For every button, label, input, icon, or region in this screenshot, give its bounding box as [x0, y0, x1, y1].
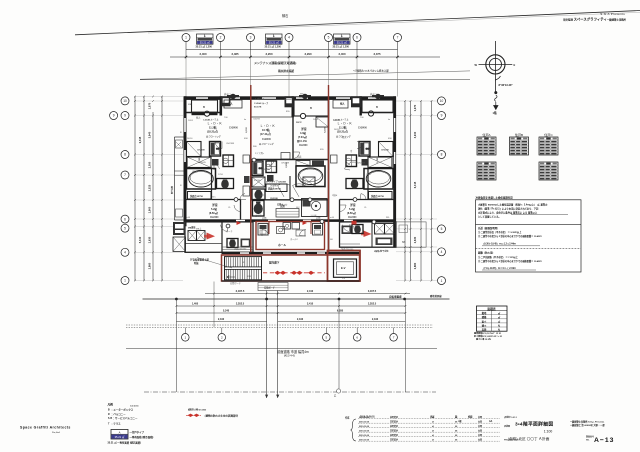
- unit number mini-table: [266, 34, 283, 45]
- svg-text:5: 5: [441, 227, 443, 231]
- stair treads: [225, 257, 227, 279]
- unit C lower dark cabinet: [376, 238, 393, 246]
- svg-text:設計監理 スペースグラフィティ一級建築士事務所: 設計監理 スペースグラフィティ一級建築士事務所: [563, 17, 626, 22]
- svg-text:lw: lw: [244, 119, 246, 121]
- svg-text:洗面: 洗面: [297, 155, 302, 159]
- unit A hall wall: [211, 168, 213, 200]
- svg-text:2,860: 2,860: [148, 262, 152, 269]
- unit A washer unit: [223, 155, 234, 167]
- svg-text:乙: 乙: [334, 394, 337, 398]
- unit A wing step lines: [222, 246, 253, 248]
- unit B hall walls: [251, 199, 329, 201]
- svg-text:CH2400: CH2400: [348, 216, 357, 219]
- unit B mid wall: [251, 159, 329, 161]
- svg-text:2,400: 2,400: [339, 52, 346, 56]
- svg-text:避難（防火用）: 避難（防火用）: [478, 250, 495, 254]
- boundary circle marker: [337, 389, 341, 393]
- grid bubble Y1 right: [438, 277, 446, 285]
- unit A wing basin: [241, 239, 251, 248]
- stair arrow: [227, 276, 235, 279]
- EV cab: [334, 259, 357, 277]
- svg-text:先道（経路証明用）: 先道（経路証明用）: [478, 226, 500, 230]
- chain tick: [328, 50, 330, 58]
- svg-text:3,187.5: 3,187.5: [368, 290, 377, 293]
- left dim line 2: [143, 96, 145, 281]
- unit B bedroom door arc: [294, 152, 299, 158]
- svg-text:6,150: 6,150: [246, 126, 248, 132]
- left dim tick row: [134, 218, 136, 220]
- svg-text:(8.59㎡): (8.59㎡): [347, 211, 356, 215]
- svg-text:排水口: 排水口: [224, 92, 231, 96]
- svg-text:855: 855: [286, 111, 290, 113]
- svg-text:3,350: 3,350: [325, 181, 327, 187]
- grid bubble X6 top: [353, 34, 361, 42]
- unit B bedroom wall: [292, 117, 294, 160]
- left dim line 1: [134, 96, 136, 281]
- chain tick: [185, 50, 187, 58]
- approach path rails: [266, 291, 268, 399]
- svg-text:R: R: [180, 185, 182, 187]
- unit A wing MB boxes: [188, 231, 197, 241]
- fire compartment red line A/B: [250, 85, 252, 252]
- svg-text:意匠変更: 意匠変更: [390, 429, 398, 433]
- unit B bath: [296, 166, 325, 187]
- grid line upper extension: [185, 57, 187, 97]
- svg-text:3: 3: [250, 36, 252, 40]
- road edge dotted upper: [126, 324, 433, 326]
- svg-text:建築面積1F1,21.75㎡・1F 21: 建築面積1F1,21.75㎡・1F 21: [473, 331, 502, 335]
- unit C top room knob: [368, 111, 373, 116]
- svg-text:上り框: 上り框: [310, 214, 317, 218]
- grid line upper extension: [288, 57, 290, 97]
- grid bubble X1 top: [182, 34, 190, 42]
- svg-text:2,190: 2,190: [372, 318, 379, 321]
- hall centre fixtures: [277, 227, 285, 234]
- grid bubble Y10 left: [121, 97, 129, 105]
- grid bubble X5 top: [325, 34, 333, 42]
- svg-text:(承認印 0.01.2: (承認印 0.01.2: [504, 415, 518, 419]
- svg-text:1: 1: [185, 36, 187, 40]
- svg-text:lw: lw: [388, 119, 390, 121]
- left dim tick row: [134, 280, 136, 282]
- svg-text:SB: SB: [402, 241, 406, 244]
- road grid bubbles: [184, 328, 186, 334]
- grid bubble X7 top: [394, 34, 402, 42]
- unit B basin cabinet: [266, 184, 287, 192]
- svg-text:Ｌ・Ｄ・Ｋ: Ｌ・Ｄ・Ｋ: [207, 122, 222, 126]
- svg-text:2,282.5: 2,282.5: [236, 303, 245, 306]
- svg-text:2,050: 2,050: [148, 161, 152, 168]
- svg-text:df: df: [432, 417, 434, 419]
- dim tick: [185, 56, 187, 58]
- svg-text:冷: 冷: [350, 149, 353, 153]
- right dim ticks: [404, 218, 406, 220]
- svg-text:限K1.25H: 限K1.25H: [297, 139, 307, 143]
- dim tick: [396, 56, 398, 58]
- right dim line: [431, 101, 433, 281]
- svg-text:SK7: SK7: [260, 195, 265, 197]
- right dim ticks: [404, 115, 406, 117]
- unit B lower cell: [303, 177, 315, 187]
- site boundary line with dots: [143, 298, 450, 300]
- unit C core cell mid: [368, 157, 392, 168]
- svg-text:承認図: 承認図: [503, 424, 510, 428]
- north angle tick: [495, 76, 500, 80]
- svg-text:1: 1: [441, 279, 443, 283]
- svg-text:2,282.5: 2,282.5: [368, 303, 377, 306]
- top chain line: [186, 49, 398, 51]
- unit A bedroom door arc: [234, 205, 241, 212]
- svg-text:Ｒ ：バルコニー: Ｒ ：バルコニー: [108, 412, 127, 416]
- grid X7 stem: [397, 42, 399, 50]
- svg-text:1,970: 1,970: [148, 102, 152, 109]
- left balcony marks: [176, 140, 183, 148]
- unit C bedroom left wall: [339, 200, 341, 220]
- svg-text:太田: 太田: [477, 433, 482, 437]
- north arrowhead: [494, 102, 498, 110]
- svg-text:(18.21㎡): (18.21㎡): [207, 130, 218, 134]
- svg-text:1棟: 1棟: [458, 419, 462, 423]
- building bottom wall: [222, 280, 360, 282]
- svg-text:ポーチ: ポーチ: [226, 229, 233, 233]
- right dim ticks: [404, 228, 406, 230]
- balcony hatch marks left: [176, 142, 181, 147]
- svg-text:C-45d8 ルーフ: C-45d8 ルーフ: [254, 101, 268, 105]
- svg-text:4: 4: [288, 36, 290, 40]
- grid bubble X3 top: [247, 34, 255, 42]
- roof drain blob unit B: [299, 94, 311, 100]
- site boundary curb line (diagonal): [75, 11, 640, 35]
- svg-text:2019.10.09: 2019.10.09: [359, 417, 370, 419]
- svg-text:2,485: 2,485: [232, 52, 239, 56]
- extra small fixtures: [243, 155, 250, 163]
- chain tick: [220, 50, 222, 58]
- svg-text:作成: 作成: [345, 415, 350, 419]
- svg-text:8: 8: [124, 153, 126, 157]
- grid bubble Y4 left: [121, 248, 129, 256]
- legend unit type box: [111, 430, 128, 440]
- title block revision rows: [358, 418, 500, 420]
- left dim tick row: [134, 226, 136, 228]
- roof drain blob unit A: [227, 94, 239, 100]
- unit A WC: [217, 179, 234, 189]
- svg-text:df: df: [432, 426, 434, 428]
- svg-text:WIC: WIC: [300, 94, 305, 96]
- right dim ticks: [404, 280, 406, 282]
- grid X5 stem: [328, 42, 330, 50]
- svg-text:10: 10: [123, 99, 127, 103]
- svg-text:w16: w16: [186, 217, 191, 219]
- svg-text:5.2帖: 5.2帖: [211, 207, 217, 211]
- left exterior wall band: [184, 96, 187, 226]
- svg-text:9,315: 9,315: [138, 136, 142, 143]
- svg-text:980: 980: [253, 146, 257, 148]
- svg-text:洗面台 W750: 洗面台 W750: [371, 194, 385, 198]
- unit A MB/LDK divider wall: [220, 96, 223, 115]
- unit number mini-table: [197, 34, 214, 45]
- svg-text:床:フローリング: 床:フローリング: [258, 142, 274, 146]
- svg-text:5: 5: [328, 36, 330, 40]
- svg-text:658: 658: [388, 138, 392, 140]
- EV red box: [328, 251, 361, 282]
- svg-text:2019.10.09: 2019.10.09: [359, 431, 370, 433]
- unit A basin cabinet: [188, 192, 212, 200]
- svg-text:9FL: 9FL: [386, 217, 391, 219]
- svg-text:縁石: 縁石: [282, 13, 288, 18]
- grid bubble Y1 left: [121, 277, 129, 285]
- svg-text:前面道路 市道 幅員4m: 前面道路 市道 幅員4m: [277, 349, 309, 354]
- unit B top room knob: [300, 113, 305, 118]
- svg-text:物入: 物入: [196, 116, 201, 120]
- svg-text:1216: 1216: [218, 174, 224, 176]
- roof drain blob unit C: [372, 94, 384, 100]
- unit C bath: [364, 169, 393, 190]
- dim tick: [219, 56, 221, 58]
- svg-text:35.21 ㎡ 1,200: 35.21 ㎡ 1,200: [265, 44, 282, 48]
- curb line parallel thin: [148, 12, 640, 33]
- svg-text:3,940: 3,940: [413, 131, 417, 138]
- left dim tick row: [134, 115, 136, 117]
- svg-text:9: 9: [441, 114, 443, 118]
- grid bubble Y9 left: [110, 112, 118, 120]
- svg-text:1:100: 1:100: [544, 430, 553, 434]
- svg-text:(42.2-4-4): (42.2-4-4): [284, 355, 295, 358]
- unit C core kitchen: [359, 142, 370, 157]
- svg-text:1,400: 1,400: [192, 303, 199, 306]
- left dim line 4: [161, 96, 163, 281]
- full-width hall top wall: [184, 219, 397, 222]
- stair mid rail: [225, 267, 262, 270]
- svg-text:2段積・物干金物: 2段積・物干金物: [374, 249, 389, 253]
- left balcony rail: [173, 137, 175, 220]
- svg-text:UB: UB: [192, 171, 196, 173]
- upper sloped drain line: [140, 71, 470, 79]
- unit number mini-table: [334, 34, 351, 45]
- svg-text:1帖M: 1帖M: [332, 193, 337, 197]
- svg-text:洋室: 洋室: [350, 203, 356, 207]
- svg-text:意匠変更: 意匠変更: [390, 415, 398, 419]
- left lower MB boxes: [173, 222, 186, 235]
- verticals to road: [175, 299, 177, 392]
- unit B LDK double door arcs: [278, 184, 291, 186]
- svg-text:1216: 1216: [298, 179, 304, 181]
- svg-text:A−13: A−13: [594, 437, 614, 444]
- unit A entrance red arrow: [207, 233, 216, 240]
- unit C hall wall: [367, 168, 369, 200]
- grid bubble Y10 right: [438, 97, 446, 105]
- unit B closet: [316, 117, 329, 127]
- hall red marks: [237, 221, 242, 225]
- right dim ticks: [404, 246, 406, 248]
- right dim line: [410, 101, 412, 281]
- lower dim line 1: [205, 293, 410, 295]
- svg-text:W645: W645: [264, 169, 270, 171]
- red compartment legend: [186, 414, 201, 417]
- unit C lower partition: [371, 222, 373, 247]
- svg-text:3,290: 3,290: [305, 52, 312, 56]
- hall/corridor wall: [222, 252, 360, 254]
- svg-text:6: 6: [124, 217, 126, 221]
- unit A bath: [187, 169, 216, 190]
- hall fixtures left: [258, 224, 268, 236]
- svg-text:2019.10.09: 2019.10.09: [359, 440, 370, 442]
- unit B WC lower: [253, 201, 265, 217]
- svg-text:検図: 検図: [468, 415, 473, 419]
- road centre line: [126, 347, 437, 349]
- left dim tick row: [134, 251, 136, 253]
- svg-text:A: A: [119, 430, 121, 434]
- svg-text:1: 1: [124, 279, 126, 283]
- lower dim line 3: [176, 312, 405, 314]
- corridor red diamonds: [274, 271, 280, 275]
- svg-text:6: 6: [356, 36, 358, 40]
- unit C lower X boxes: [375, 224, 385, 235]
- svg-text:35.21 ㎡: 35.21 ㎡: [337, 40, 347, 44]
- explanation box divider solid: [476, 223, 582, 225]
- grid bubble Y4 right: [438, 248, 446, 256]
- svg-text:排水口: 排水口: [370, 92, 377, 96]
- svg-text:SIC: SIC: [296, 207, 300, 209]
- left dim tick row: [134, 96, 136, 98]
- svg-text:df: df: [432, 435, 434, 437]
- opposite boundary dash-dot: [144, 391, 436, 393]
- svg-text:5.2帖: 5.2帖: [349, 207, 355, 211]
- svg-text:2: 2: [220, 36, 222, 40]
- unit B hall steps: [276, 209, 299, 218]
- svg-text:(8.59㎡): (8.59㎡): [209, 211, 218, 215]
- road upper dim segments: [176, 321, 266, 323]
- svg-text:1216: 1216: [366, 174, 372, 176]
- unit C core closet X: [379, 142, 394, 157]
- svg-text:1,760: 1,760: [377, 157, 379, 163]
- svg-text:床:フローリング: 床:フローリング: [205, 135, 221, 139]
- svg-text:35.21 ㎡ 1,200: 35.21 ㎡ 1,200: [333, 44, 350, 48]
- svg-text:R: R: [180, 132, 182, 134]
- svg-text:CL: CL: [364, 207, 368, 209]
- upper boundary line with dots: [140, 79, 470, 81]
- svg-text:冷房負荷を考慮した換気扇説明文: 冷房負荷を考慮した換気扇説明文: [476, 196, 514, 200]
- right dim line: [420, 101, 422, 281]
- svg-text:W645: W645: [352, 162, 358, 164]
- svg-text:(7.34㎡): (7.34㎡): [298, 135, 307, 139]
- svg-text:CH2400: CH2400: [229, 127, 238, 130]
- svg-text:意匠変更: 意匠変更: [390, 433, 398, 437]
- unit B balcony strip rails: [252, 99, 292, 101]
- svg-text:玄関ポーチ: 玄関ポーチ: [264, 286, 276, 290]
- svg-text:1624: 1624: [313, 119, 319, 121]
- dim tick: [288, 56, 290, 58]
- svg-text:35.21 ㎡: 35.21 ㎡: [269, 40, 279, 44]
- svg-text:太田: 太田: [477, 415, 482, 419]
- svg-text:横断防止柵 W=1800: 横断防止柵 W=1800: [188, 408, 207, 412]
- left dim tick row: [134, 100, 136, 102]
- svg-text:2,860: 2,860: [413, 262, 417, 269]
- svg-text:屋内廊下: 屋内廊下: [269, 261, 280, 265]
- unit B washer circle: [302, 199, 328, 217]
- svg-text:700: 700: [224, 117, 228, 119]
- svg-text:S.G.A Presents: S.G.A Presents: [600, 12, 625, 16]
- svg-text:4.3帖: 4.3帖: [300, 131, 306, 135]
- unit C lower step lines: [340, 243, 361, 245]
- unit C upper partition: [362, 112, 393, 114]
- hall red inner verticals: [268, 222, 270, 235]
- road edge dotted upper2: [126, 327, 433, 329]
- svg-text:Ｌ・Ｄ・Ｋ: Ｌ・Ｄ・Ｋ: [260, 124, 275, 128]
- svg-text:メンテナンス通路(屋根天端通路): メンテナンス通路(屋根天端通路): [254, 60, 296, 65]
- svg-text:Space Graffiti Architects: Space Graffiti Architects: [20, 426, 71, 430]
- svg-text:図面番号: 図面番号: [586, 434, 594, 438]
- svg-text:658: 658: [244, 138, 248, 140]
- svg-text:DK16: DK16: [187, 138, 193, 140]
- svg-text:8: 8: [441, 153, 443, 157]
- svg-text:太田: 太田: [477, 438, 482, 442]
- unit finish table at 477,162: [477, 162, 496, 180]
- grid bubble X2 top: [217, 34, 225, 42]
- svg-text:自転車置場: 自転車置場: [389, 295, 402, 299]
- unit B PS shaft block: [285, 96, 294, 107]
- chain tick: [288, 50, 290, 58]
- svg-text:1=4 2/3 4: 1=4 2/3 4: [130, 404, 139, 407]
- svg-text:5,440: 5,440: [138, 236, 142, 243]
- grid bubble Y7 left: [121, 171, 129, 179]
- grid line upper extension: [356, 57, 358, 97]
- grid X1 stem: [185, 42, 187, 50]
- corridor red dashed centreline: [263, 272, 325, 274]
- svg-text:K1.5M: K1.5M: [254, 180, 260, 182]
- svg-text:2019.10.09: 2019.10.09: [359, 435, 370, 437]
- svg-text:CH2400: CH2400: [358, 127, 367, 130]
- svg-text:SIC: SIC: [212, 197, 216, 199]
- svg-text:3,375: 3,375: [374, 52, 381, 56]
- svg-text:住戸B: 住戸B: [515, 132, 523, 137]
- left balcony divider: [174, 170, 183, 172]
- svg-text:BxG7B: BxG7B: [254, 107, 262, 109]
- svg-text:1,900: 1,900: [148, 206, 152, 213]
- svg-text:―専有面積 (壁芯面積): ―専有面積 (壁芯面積): [130, 435, 154, 439]
- explanation box divider dashed: [476, 248, 582, 250]
- svg-text:1,970: 1,970: [413, 104, 417, 111]
- title block brace: [351, 419, 357, 441]
- svg-text:Co.,Ltd: Co.,Ltd: [52, 431, 60, 434]
- unit C lower door arc: [343, 225, 350, 232]
- unit B core cell: [252, 177, 265, 187]
- svg-text:W: W: [475, 63, 478, 67]
- unit A core cell mid: [187, 157, 211, 168]
- svg-text:ホール: ホール: [278, 243, 286, 247]
- svg-text:MB上: MB上: [196, 227, 202, 231]
- svg-text:35.21 ㎡: 35.21 ㎡: [200, 40, 210, 44]
- dim tick: [249, 56, 251, 58]
- unit A PS shaft block: [221, 96, 231, 106]
- unit B dark cell: [267, 175, 274, 182]
- chain tick: [356, 50, 358, 58]
- left dim line 3: [152, 112, 154, 281]
- svg-text:C607B: C607B: [333, 120, 340, 122]
- svg-text:5: 5: [124, 226, 126, 230]
- svg-text:太田: 太田: [477, 420, 482, 424]
- unit B top room walls: [292, 96, 294, 117]
- svg-text:2019.10.09: 2019.10.09: [359, 422, 370, 424]
- svg-text:35.21 ㎡ ―専有面積 (壁芯面積): 35.21 ㎡ ―専有面積 (壁芯面積): [108, 440, 142, 444]
- svg-text:住戸A: 住戸A: [482, 132, 491, 137]
- svg-text:ＳＢ：サービスバルコニー: ＳＢ：サービスバルコニー: [108, 416, 138, 420]
- svg-text:B: B: [376, 105, 378, 109]
- area table: [477, 306, 508, 332]
- svg-text:PS: PS: [342, 278, 345, 280]
- unit A core dark cell: [212, 159, 219, 166]
- unit C LDK door arc: [357, 142, 364, 149]
- unit C lower WC: [352, 225, 363, 234]
